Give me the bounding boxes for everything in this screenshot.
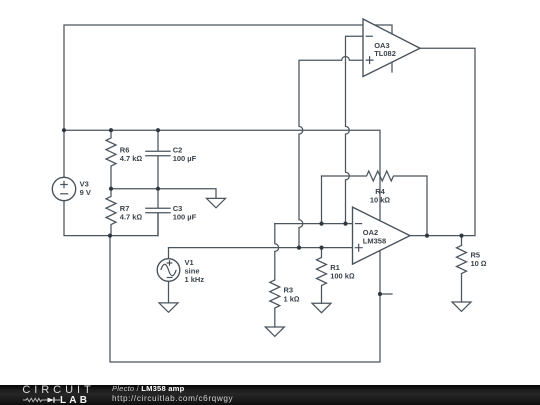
- svg-text:TL082: TL082: [374, 49, 396, 58]
- svg-text:1 kΩ: 1 kΩ: [284, 294, 300, 303]
- svg-text:9 V: 9 V: [80, 188, 91, 197]
- svg-text:LM358: LM358: [363, 236, 386, 245]
- svg-text:1 kHz: 1 kHz: [185, 275, 205, 284]
- svg-text:4.7 kΩ: 4.7 kΩ: [120, 213, 143, 222]
- svg-text:100 kΩ: 100 kΩ: [330, 271, 355, 280]
- svg-text:10 Ω: 10 Ω: [471, 259, 487, 268]
- svg-text:R3: R3: [284, 286, 294, 295]
- svg-text:100 µF: 100 µF: [173, 154, 197, 163]
- svg-text:10 kΩ: 10 kΩ: [370, 195, 391, 204]
- svg-text:100 µF: 100 µF: [173, 213, 197, 222]
- svg-text:4.7 kΩ: 4.7 kΩ: [120, 154, 143, 163]
